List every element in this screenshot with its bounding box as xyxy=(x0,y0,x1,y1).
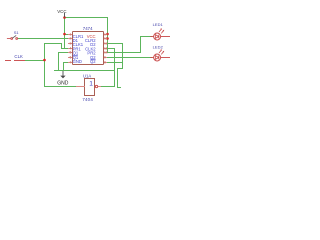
wire VCC right vertical xyxy=(107,17,108,53)
pin stub 1 xyxy=(68,34,72,35)
wire to CLR1 pin 1 xyxy=(64,34,68,35)
inverter U1A output lead xyxy=(98,86,101,87)
pin stub 11 xyxy=(104,48,107,49)
pin stub 6 xyxy=(68,57,72,58)
svg-text:8: 8 xyxy=(104,61,106,65)
wire Q1 pin 5 horizontal xyxy=(58,52,68,53)
pin stub 10 xyxy=(104,52,107,53)
switch S1 xyxy=(7,35,18,39)
junction dot pin 13 xyxy=(106,37,109,40)
VCC supply symbol xyxy=(57,9,66,17)
svg-text:14: 14 xyxy=(104,33,108,37)
svg-text:5: 5 xyxy=(70,51,72,55)
pin stub 2 xyxy=(68,38,72,39)
pin names right xyxy=(85,34,96,64)
junction dot VCC top xyxy=(63,16,66,19)
junction dot CLR1 xyxy=(63,33,66,36)
wire GND pin 7 horizontal xyxy=(63,62,68,63)
svg-text:CLK: CLK xyxy=(14,54,23,59)
wire CLK vertical xyxy=(44,43,45,87)
junction dot pin 14 xyxy=(106,33,109,36)
wire LED1 vertical xyxy=(140,36,141,53)
pin stub 4 xyxy=(68,48,72,49)
wire GND vertical xyxy=(63,62,64,71)
wire CLK to U1A input xyxy=(44,86,76,87)
svg-text:13: 13 xyxy=(104,37,108,41)
wire CLK upper horizontal xyxy=(44,43,61,44)
pin stub 9 xyxy=(104,57,107,58)
svg-text:VCC: VCC xyxy=(57,9,66,14)
wire Q2n pin 8 horizontal xyxy=(106,62,123,63)
pin stub 3 xyxy=(68,43,72,44)
svg-text:3: 3 xyxy=(70,42,72,46)
svg-text:11: 11 xyxy=(104,47,108,51)
wire U1A output horizontal xyxy=(101,86,114,87)
pin stub 12 xyxy=(104,43,107,44)
wire D2 pin 12 horizontal xyxy=(106,43,123,44)
wire CLK2 pin 11 horizontal xyxy=(106,48,114,49)
wire Q2 pin 9 to LED2 xyxy=(106,57,152,58)
svg-text:S1: S1 xyxy=(14,30,20,35)
wire Q2n jog vertical xyxy=(117,68,118,88)
svg-text:9: 9 xyxy=(104,56,106,60)
wire Q2n stub end xyxy=(117,87,121,88)
pin stub 14 xyxy=(104,34,107,35)
wire Q1 vertical xyxy=(58,52,59,71)
pin numbers left 1-7 xyxy=(70,33,72,65)
svg-text:12: 12 xyxy=(104,42,108,46)
svg-text:GND: GND xyxy=(73,59,82,64)
wire VCC left vertical xyxy=(64,17,65,49)
wire Q2n jog horizontal xyxy=(117,68,123,69)
svg-text:7404: 7404 xyxy=(82,97,93,102)
wire CLK jog vertical xyxy=(61,43,62,49)
inverter U1A body xyxy=(85,79,95,96)
svg-text:GND: GND xyxy=(57,81,69,87)
wire CLK jog to PR1 pin 4 xyxy=(61,48,68,49)
wire VCC top horizontal xyxy=(64,17,108,18)
wire PR2 to LED1 xyxy=(106,52,141,53)
pin stub 7 xyxy=(68,62,72,63)
pin stub 13 xyxy=(104,38,107,39)
svg-text:1: 1 xyxy=(70,33,72,37)
svg-text:10: 10 xyxy=(104,51,108,55)
wire CLK red segment left xyxy=(5,60,11,61)
LED2 xyxy=(150,49,170,61)
svg-text:1: 1 xyxy=(89,81,93,88)
ground symbol GND xyxy=(57,71,69,87)
svg-text:U1A: U1A xyxy=(83,73,91,78)
inverter U1A output bubble xyxy=(95,85,97,87)
IC 7474 body xyxy=(73,32,104,65)
svg-text:LED1: LED1 xyxy=(153,22,164,27)
wire CLK red segment right xyxy=(14,60,25,61)
pin names left xyxy=(73,34,84,64)
pin numbers right 14-8 xyxy=(104,33,108,65)
pin stub 8 xyxy=(104,62,107,63)
svg-text:7: 7 xyxy=(70,61,72,65)
svg-text:2: 2 xyxy=(70,37,72,41)
svg-text:7474: 7474 xyxy=(83,26,93,31)
svg-text:6: 6 xyxy=(70,56,72,60)
pin stub 5 xyxy=(68,52,72,53)
inverter U1A input lead xyxy=(76,86,85,87)
wire D2 feedback vertical xyxy=(122,43,123,69)
wire ground rail horizontal xyxy=(54,70,114,71)
svg-text:4: 4 xyxy=(70,47,72,51)
wire S1 to D1 pin 2 xyxy=(18,38,68,39)
wire LED1 horizontal xyxy=(140,36,152,37)
wire CLK green horizontal xyxy=(24,60,44,61)
svg-text:LED2: LED2 xyxy=(153,45,164,50)
junction dot CLK xyxy=(43,59,46,62)
LED1 xyxy=(150,28,170,40)
wire CLK2 vertical to U1A output xyxy=(114,48,115,87)
